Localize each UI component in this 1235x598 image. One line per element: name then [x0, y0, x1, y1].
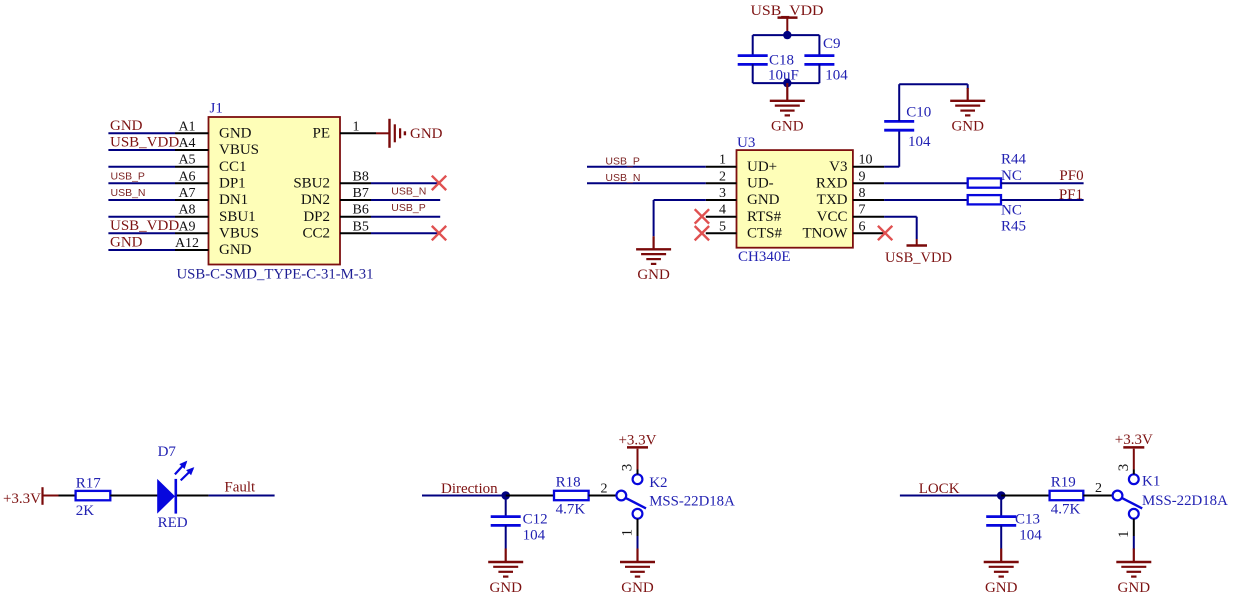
svg-text:RTS#: RTS# — [747, 209, 782, 225]
wire R44 to PF0 — [1001, 182, 1084, 184]
switch K2 — [616, 474, 646, 518]
junction bottom — [783, 79, 791, 87]
J1 pin B8 wire — [340, 182, 439, 184]
svg-text:GND: GND — [489, 580, 522, 596]
svg-text:C10: C10 — [906, 105, 931, 121]
svg-text:GND: GND — [637, 267, 670, 283]
J1 pin B7 wire — [340, 199, 440, 201]
svg-text:1: 1 — [719, 153, 726, 168]
ground below C18 — [786, 83, 788, 102]
svg-text:Fault: Fault — [224, 480, 256, 496]
svg-text:B7: B7 — [353, 186, 369, 201]
wire U3 pin 7 VCC to USB_VDD — [853, 217, 917, 239]
power flag USB_VDD above C18 — [778, 18, 798, 35]
wire C18 C9 top rail — [753, 34, 820, 36]
wire junction to R18 — [506, 495, 554, 497]
connector J1 USB-C body — [209, 117, 341, 265]
J1 pin PE wire — [340, 132, 391, 134]
U3 pin 6 stub — [853, 232, 884, 234]
svg-text:104: 104 — [523, 528, 546, 544]
ground right of C10 — [967, 88, 969, 102]
svg-text:10uF: 10uF — [768, 67, 799, 83]
wire net USB_P to U3 pin 1 — [587, 166, 737, 168]
capacitor C18 — [738, 35, 768, 83]
svg-text:4.7K: 4.7K — [1051, 502, 1081, 518]
wire net USB_N to U3 pin 2 — [587, 182, 737, 184]
capacitor C9 — [804, 35, 834, 83]
svg-text:3: 3 — [1116, 464, 1132, 472]
svg-text:B8: B8 — [353, 169, 369, 184]
svg-text:USB_P: USB_P — [111, 170, 145, 182]
svg-text:GND: GND — [951, 118, 984, 134]
svg-text:V3: V3 — [829, 159, 847, 175]
junction on Direction — [501, 491, 510, 500]
svg-text:C9: C9 — [823, 36, 841, 52]
wire to J1 pin A9 — [108, 232, 208, 234]
svg-text:RXD: RXD — [816, 176, 848, 192]
svg-text:2K: 2K — [76, 503, 95, 519]
svg-text:+3.3V: +3.3V — [3, 491, 41, 507]
U3 pin names — [747, 159, 848, 242]
wire R18 to K2 — [589, 495, 617, 497]
svg-text:SBU2: SBU2 — [293, 176, 330, 192]
svg-text:3: 3 — [719, 186, 726, 201]
wire R17 to D7 — [110, 495, 157, 497]
svg-text:UD-: UD- — [747, 176, 774, 192]
svg-text:CH340E: CH340E — [738, 249, 791, 265]
svg-text:USB_P: USB_P — [391, 202, 425, 214]
resistor R19 — [1050, 491, 1084, 500]
wire to J1 pin A1 — [108, 132, 208, 134]
svg-text:6: 6 — [859, 219, 866, 234]
svg-text:USB_VDD: USB_VDD — [885, 250, 952, 266]
svg-text:104: 104 — [1019, 528, 1042, 544]
svg-text:MSS-22D18A: MSS-22D18A — [649, 494, 735, 510]
svg-text:10: 10 — [859, 153, 873, 168]
wire U3 pin 8 to R45 — [853, 199, 968, 201]
svg-text:R45: R45 — [1001, 218, 1026, 234]
wire D7 to Fault — [177, 495, 275, 497]
capacitor C12 — [491, 496, 521, 549]
svg-text:104: 104 — [825, 67, 848, 83]
svg-text:UD+: UD+ — [747, 159, 777, 175]
svg-text:USB_P: USB_P — [605, 155, 639, 167]
wire R45 to PF1 — [1001, 199, 1084, 201]
svg-text:DP2: DP2 — [303, 209, 330, 225]
power flag +3.3V at R17 — [43, 487, 59, 505]
wire to J1 pin A5 — [108, 166, 208, 168]
svg-text:DN1: DN1 — [219, 192, 248, 208]
svg-text:GND: GND — [219, 242, 252, 258]
svg-text:GND: GND — [110, 118, 143, 134]
svg-text:4: 4 — [719, 203, 726, 218]
wire net Direction — [422, 495, 506, 497]
ground below K1 — [1133, 549, 1135, 564]
svg-text:MSS-22D18A: MSS-22D18A — [1142, 493, 1228, 509]
svg-text:Direction: Direction — [441, 481, 498, 497]
wire K1 pin 1 to ground — [1133, 519, 1135, 536]
svg-text:VCC: VCC — [817, 209, 848, 225]
wire K1 pin 3 to +3.3V — [1133, 470, 1135, 475]
ground at U3 pin 3 — [652, 236, 654, 250]
svg-text:USB_VDD: USB_VDD — [110, 135, 179, 151]
wire U3 pin 3 to ground — [654, 200, 737, 236]
svg-text:SBU1: SBU1 — [219, 209, 256, 225]
svg-text:GND: GND — [747, 192, 780, 208]
U3 pin 5 stub — [706, 232, 737, 234]
svg-text:R19: R19 — [1051, 474, 1076, 490]
resistor R17 — [76, 491, 111, 500]
svg-text:USB_N: USB_N — [605, 172, 640, 184]
capacitor C10 — [884, 84, 914, 130]
power flag +3.3V at K2 — [627, 447, 648, 469]
svg-text:7: 7 — [859, 203, 866, 218]
U3 pin 4 stub — [706, 216, 737, 218]
wire to J1 pin A4 — [108, 149, 208, 151]
no-connect X on B5 — [432, 226, 446, 240]
svg-text:PE: PE — [312, 126, 330, 142]
ground below K2 — [636, 549, 638, 564]
svg-text:5: 5 — [719, 219, 726, 234]
svg-text:A1: A1 — [178, 119, 195, 134]
svg-text:GND: GND — [219, 126, 252, 142]
LED D7 — [157, 461, 194, 514]
wire C18 C9 bottom rail — [753, 82, 820, 84]
svg-text:9: 9 — [859, 169, 866, 184]
svg-text:TNOW: TNOW — [803, 226, 849, 242]
svg-text:C12: C12 — [523, 512, 548, 528]
junction on LOCK — [997, 491, 1006, 500]
wire junction to R19 — [1001, 495, 1049, 497]
svg-text:GND: GND — [410, 126, 443, 142]
svg-text:TXD: TXD — [817, 192, 848, 208]
svg-text:USB_N: USB_N — [111, 187, 146, 199]
svg-text:GND: GND — [110, 235, 143, 251]
J1 pin B6 wire — [340, 216, 440, 218]
wire to J1 pin A8 — [108, 216, 208, 218]
J1 pin names — [219, 126, 330, 259]
svg-text:2: 2 — [601, 482, 608, 497]
svg-text:J1: J1 — [210, 101, 223, 117]
svg-text:104: 104 — [908, 134, 931, 150]
svg-text:A9: A9 — [178, 219, 195, 234]
svg-text:NC: NC — [1001, 168, 1022, 184]
wire U3 pin 9 to R44 — [853, 182, 968, 184]
no-connect X on B8 — [432, 176, 446, 190]
wire R19 to K1 — [1083, 495, 1112, 497]
svg-text:USB_VDD: USB_VDD — [751, 3, 824, 19]
svg-text:CTS#: CTS# — [747, 226, 783, 242]
svg-text:USB_N: USB_N — [391, 186, 426, 198]
svg-text:GND: GND — [985, 580, 1018, 596]
no-connect X on TNOW — [878, 226, 892, 240]
wire U3 pin 10 to C10 — [853, 130, 899, 166]
svg-text:A7: A7 — [178, 186, 195, 201]
svg-text:A6: A6 — [178, 169, 195, 184]
no-connect X on RTS# — [695, 209, 709, 223]
svg-text:USB_VDD: USB_VDD — [110, 218, 179, 234]
svg-text:4.7K: 4.7K — [556, 502, 586, 518]
svg-text:A5: A5 — [178, 153, 195, 168]
svg-text:A12: A12 — [175, 236, 199, 251]
svg-text:+3.3V: +3.3V — [618, 432, 656, 448]
no-connect X on CTS# — [695, 226, 709, 240]
svg-text:NC: NC — [1001, 203, 1022, 219]
junction top — [783, 31, 791, 39]
IC U3 CH340E body — [737, 150, 853, 248]
svg-text:R17: R17 — [76, 476, 102, 492]
svg-text:CC1: CC1 — [219, 159, 247, 175]
svg-text:VBUS: VBUS — [219, 142, 259, 158]
svg-text:2: 2 — [1095, 481, 1102, 496]
wire +3.3V to R17 — [59, 495, 76, 497]
wire to J1 pin A12 — [108, 249, 208, 251]
svg-text:B6: B6 — [353, 203, 369, 218]
svg-text:VBUS: VBUS — [219, 226, 259, 242]
svg-text:DN2: DN2 — [301, 192, 330, 208]
svg-text:K1: K1 — [1142, 473, 1160, 489]
svg-text:LOCK: LOCK — [919, 481, 960, 497]
svg-text:1: 1 — [1116, 531, 1132, 539]
svg-text:B5: B5 — [353, 219, 369, 234]
svg-text:D7: D7 — [158, 444, 177, 460]
svg-text:C18: C18 — [769, 52, 794, 68]
svg-text:C13: C13 — [1015, 512, 1040, 528]
resistor R44 — [968, 178, 1001, 187]
wire net LOCK — [900, 495, 1001, 497]
svg-text:3: 3 — [620, 464, 636, 472]
wire to J1 pin A6 — [108, 182, 208, 184]
svg-text:+3.3V: +3.3V — [1115, 432, 1153, 448]
earth ground at PE — [390, 119, 405, 148]
svg-text:GND: GND — [1118, 580, 1151, 596]
svg-text:8: 8 — [859, 186, 866, 201]
svg-text:GND: GND — [771, 118, 804, 134]
svg-text:GND: GND — [621, 580, 654, 596]
svg-text:2: 2 — [719, 169, 726, 184]
svg-text:R18: R18 — [556, 474, 581, 490]
wire K2 pin 1 to ground — [637, 519, 639, 536]
svg-text:CC2: CC2 — [302, 226, 330, 242]
ground below C13 — [1000, 549, 1002, 564]
switch K1 — [1113, 474, 1143, 518]
ground below C12 — [505, 549, 507, 564]
wire K2 pin 3 to +3.3V — [637, 470, 639, 475]
svg-text:RED: RED — [158, 515, 188, 531]
capacitor C13 — [986, 496, 1016, 549]
svg-text:PF1: PF1 — [1059, 187, 1083, 203]
svg-text:K2: K2 — [649, 475, 667, 491]
svg-text:U3: U3 — [737, 135, 755, 151]
resistor R18 — [554, 491, 589, 500]
svg-text:R44: R44 — [1001, 152, 1027, 168]
svg-text:DP1: DP1 — [219, 176, 246, 192]
svg-text:A4: A4 — [178, 136, 195, 151]
J1 pin B5 wire — [340, 232, 439, 234]
svg-text:1: 1 — [353, 119, 360, 134]
resistor R45 — [968, 195, 1001, 204]
svg-text:PF0: PF0 — [1059, 168, 1083, 184]
wire C10 to ground — [899, 84, 968, 89]
svg-text:A8: A8 — [178, 203, 195, 218]
power flag +3.3V at K1 — [1123, 447, 1144, 469]
power flag USB_VDD at VCC — [907, 239, 928, 246]
svg-text:USB-C-SMD_TYPE-C-31-M-31: USB-C-SMD_TYPE-C-31-M-31 — [177, 267, 374, 283]
wire to J1 pin A7 — [108, 199, 208, 201]
svg-text:1: 1 — [620, 529, 636, 537]
